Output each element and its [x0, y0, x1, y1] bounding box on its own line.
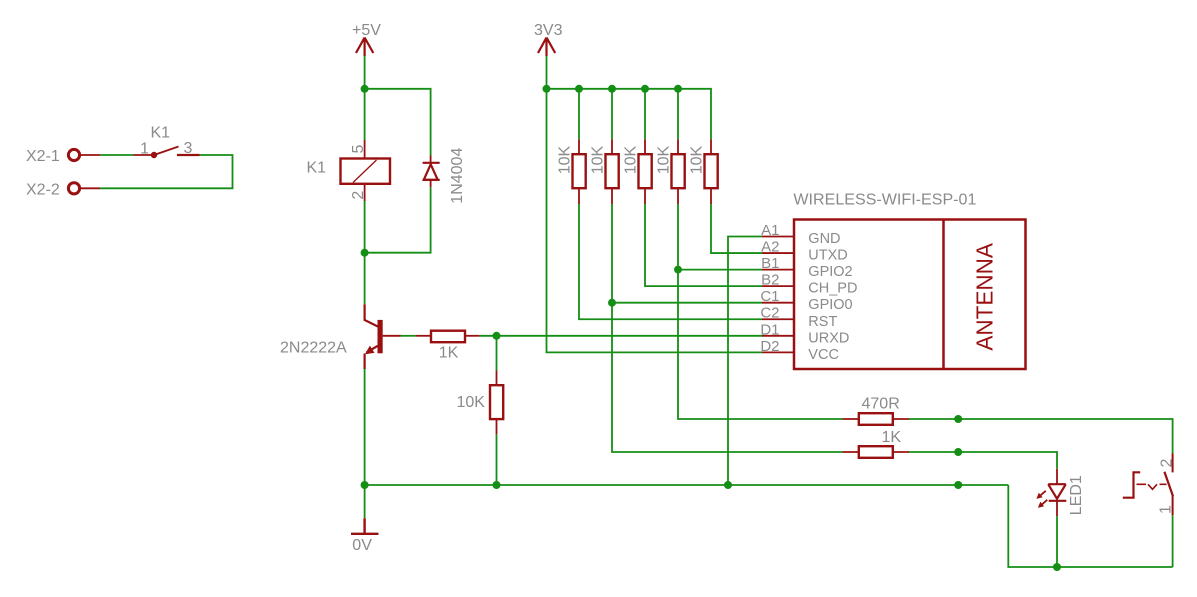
module U1 pin names [808, 231, 857, 363]
wire ground rail drop right [1008, 485, 1172, 567]
wire R5 to CH_PD (B2) [645, 204, 762, 286]
node bus junction 1 [543, 85, 551, 93]
wire X2-1 to contact [100, 154, 133, 156]
pad X2-1 [68, 149, 79, 160]
node base junction [493, 332, 501, 340]
resistor R8 470R body [859, 413, 893, 425]
node GPIO0 junction [608, 299, 616, 307]
wire +5V stem [364, 56, 366, 89]
wire GPIO0 (C1) [612, 302, 762, 304]
node R2 ground junction [493, 481, 501, 489]
resistor R9 1K right stub [893, 451, 909, 453]
resistor R2 10K body [490, 385, 503, 419]
svg-text:C1: C1 [760, 288, 779, 305]
svg-text:LED1: LED1 [1068, 475, 1085, 515]
svg-text:10K: 10K [656, 146, 673, 175]
wire GPIO2 (B1) [678, 269, 762, 271]
wire R7 to UTXD (A2) [711, 204, 762, 253]
svg-text:10K: 10K [689, 146, 706, 175]
switch S1 linkage dashes [1137, 484, 1167, 489]
svg-text:A2: A2 [761, 239, 779, 256]
resistor R6 10K (pullup 4) [656, 89, 685, 204]
wire 3V3 stem [546, 56, 548, 89]
wire emitter down [364, 369, 366, 485]
wire 3V3 bus [547, 89, 712, 139]
svg-text:CH_PD: CH_PD [808, 281, 857, 297]
module U1 pin stubs A1-D2 [762, 237, 794, 353]
node ground rail dot right [954, 481, 962, 489]
svg-text:A1: A1 [761, 222, 779, 239]
LED LED1 emission arrow 1 [1036, 491, 1045, 499]
svg-text:X2-2: X2-2 [26, 182, 60, 199]
node emitter ground junction [361, 481, 369, 489]
node LED bottom junction [1053, 563, 1061, 571]
wire diode branch bottom [365, 187, 431, 252]
supply 3V3 symbol [538, 38, 555, 57]
svg-text:D2: D2 [760, 338, 779, 355]
relay K1 pin 5 stub [364, 140, 366, 159]
wire URXD net D1 [497, 335, 763, 337]
resistor R5 10K (pullup 3) [623, 89, 652, 204]
resistor R9 1K body [859, 446, 893, 458]
node relay-collector junction [361, 249, 369, 257]
node GPIO2 junction [674, 266, 682, 274]
wire R4 to GPIO0 (C1) and 1K LED resistor [612, 204, 843, 452]
svg-text:K1: K1 [151, 124, 171, 141]
svg-text:10K: 10K [557, 146, 574, 175]
svg-text:+5V: +5V [352, 22, 381, 39]
wire R1 to base node [480, 335, 497, 337]
svg-text:RST: RST [808, 314, 837, 330]
relay K1 pin 2 stub [364, 184, 366, 201]
resistor R4 10K (pullup 2) [590, 89, 619, 204]
svg-text:5: 5 [350, 145, 367, 154]
svg-text:GND: GND [808, 231, 840, 247]
resistor R8 470R left stub [843, 418, 859, 420]
switch S1 pin 2 stub [1172, 454, 1174, 473]
resistor R1 1K right stub [465, 335, 480, 337]
switch S1 blade [1164, 472, 1173, 496]
wire base node to R2 [496, 336, 498, 371]
supply +5V symbol [356, 38, 373, 57]
svg-text:1K: 1K [439, 344, 459, 361]
wire R3 to RST (C2) [579, 204, 762, 319]
svg-text:GPIO2: GPIO2 [808, 264, 852, 280]
svg-text:3: 3 [184, 140, 193, 157]
resistor R2 10K top stub [496, 371, 498, 386]
relay contact K1 right terminal [177, 154, 200, 156]
relay contact K1 pivot [151, 152, 157, 158]
transistor Q1 emitter pin [365, 346, 378, 369]
svg-text:10K: 10K [623, 146, 640, 175]
svg-text:X2-1: X2-1 [26, 148, 60, 165]
relay K1 coil diagonal [353, 160, 377, 183]
module U1 pin labels A1-D2 [760, 222, 779, 355]
wire LED to bottom rail [1056, 516, 1058, 567]
wire GND net (A1) [728, 237, 762, 486]
resistor R1 1K left stub [416, 335, 431, 337]
node bus junction 2 [575, 85, 583, 93]
svg-text:GPIO0: GPIO0 [808, 297, 852, 313]
pad X2-2 [68, 183, 79, 194]
relay contact K1 blade [154, 147, 179, 156]
transistor Q1 base bar [378, 320, 383, 353]
svg-text:VCC: VCC [808, 347, 839, 363]
svg-text:470R: 470R [862, 396, 900, 413]
switch S1 pin 1 stub [1172, 496, 1174, 515]
svg-text:UTXD: UTXD [808, 248, 847, 264]
svg-text:WIRELESS-WIFI-ESP-01: WIRELESS-WIFI-ESP-01 [793, 191, 976, 208]
wire R6 to GPIO2 (B1) and 470R [678, 204, 843, 419]
node GND rail junction [724, 481, 732, 489]
svg-text:10K: 10K [590, 146, 607, 175]
svg-text:0V: 0V [352, 537, 372, 554]
pad X2-1 pin stub [81, 154, 101, 156]
node bus junction 4 [641, 85, 649, 93]
wire +5V to relay coil [364, 89, 366, 140]
transistor Q1 collector pin [365, 304, 378, 326]
wire relay to collector node [364, 201, 366, 253]
ground 0V symbol [351, 518, 379, 534]
resistor R2 10K bottom stub [496, 419, 498, 434]
resistor R7 10K (pullup 5) [689, 139, 718, 204]
relay contact K1 left terminal [134, 154, 155, 156]
wire ground rail [365, 484, 1009, 486]
node 470R net dot [954, 415, 962, 423]
resistor R9 1K left stub [843, 451, 859, 453]
svg-text:2: 2 [1158, 459, 1175, 468]
wire 470R to switch [909, 419, 1173, 454]
LED LED1 symbol [1048, 484, 1066, 501]
LED LED1 anode stub [1056, 469, 1058, 484]
node bus junction 3 [608, 85, 616, 93]
svg-text:1: 1 [140, 141, 149, 158]
svg-text:ANTENNA: ANTENNA [971, 243, 997, 351]
svg-text:2: 2 [350, 191, 367, 200]
wire diode branch top [365, 89, 431, 156]
svg-text:D1: D1 [760, 321, 779, 338]
diode D1 anode stub [430, 156, 432, 164]
diode D1 1N4004 symbol [423, 163, 440, 180]
module U1 body [794, 220, 1026, 370]
wire ground drop [364, 485, 366, 518]
svg-text:B1: B1 [761, 255, 779, 272]
LED LED1 emission arrow 2 [1038, 500, 1047, 508]
resistor R1 1K body [431, 331, 465, 343]
LED LED1 cathode stub [1056, 501, 1058, 517]
svg-text:3V3: 3V3 [534, 22, 563, 39]
resistor R3 10K (pullup 1) [557, 89, 586, 204]
svg-text:1K: 1K [882, 429, 902, 446]
node +5V junction [361, 85, 369, 93]
wire contact to X2-2 [100, 155, 232, 188]
module U1 antenna divider [942, 220, 945, 370]
pad X2-2 pin stub [81, 187, 101, 189]
switch S1 actuator [1123, 472, 1140, 497]
resistor R8 470R right stub [893, 418, 909, 420]
diode D1 cathode stub [430, 180, 432, 188]
relay K1 coil body [341, 159, 391, 184]
wire switch pin1 to bottom rail [1172, 515, 1174, 567]
wire R2 to ground rail [496, 434, 498, 485]
svg-text:C2: C2 [760, 305, 779, 322]
svg-text:10K: 10K [457, 394, 486, 411]
wire 1K to LED [909, 452, 1057, 469]
svg-text:URXD: URXD [808, 330, 849, 346]
node 1K net dot [954, 448, 962, 456]
node bus junction 5 [674, 85, 682, 93]
transistor Q1 base pin stub [383, 335, 401, 337]
wire base to R1 [401, 335, 416, 337]
svg-text:1N4004: 1N4004 [449, 148, 466, 204]
wire collector [364, 253, 366, 305]
transistor Q1 emitter arrow [365, 346, 375, 355]
svg-text:1: 1 [1158, 505, 1175, 514]
svg-text:B2: B2 [761, 272, 779, 289]
svg-text:2N2222A: 2N2222A [280, 340, 347, 357]
wire 3V3 column to VCC [547, 89, 763, 353]
svg-text:K1: K1 [307, 160, 327, 177]
